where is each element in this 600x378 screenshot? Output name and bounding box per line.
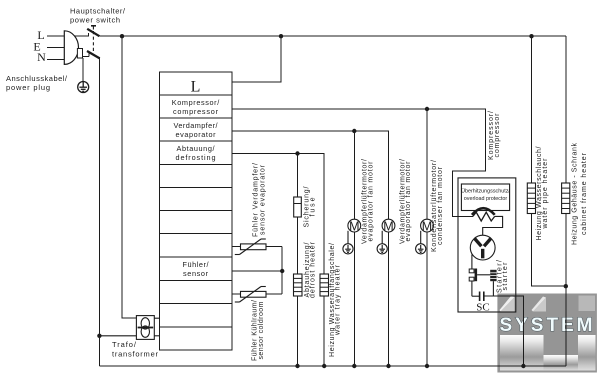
svg-text:water pipe heater: water pipe heater [542,158,549,230]
svg-text:SC: SC [476,302,489,314]
svg-text:Verdampfer/: Verdampfer/ [174,121,219,130]
svg-text:N: N [37,50,46,64]
svg-text:cabinet frame heater: cabinet frame heater [581,152,588,235]
svg-text:sensor evaporator: sensor evaporator [260,164,267,235]
svg-text:water tray heater: water tray heater [334,264,341,336]
svg-text:power plug: power plug [6,83,50,92]
svg-text:evaporator fan motor: evaporator fan motor [405,161,412,242]
svg-text:sensor coldroom: sensor coldroom [258,301,265,359]
svg-text:defrost heater: defrost heater [309,241,316,298]
svg-text:compressor: compressor [173,107,219,116]
svg-text:M: M [383,219,393,233]
svg-text:M: M [349,219,359,233]
svg-text:evaporator fan motor: evaporator fan motor [368,161,375,242]
svg-text:Heizung Gehäuse - Schrank: Heizung Gehäuse - Schrank [572,143,579,246]
svg-text:Überhitzungsschutz/: Überhitzungsschutz/ [461,188,510,195]
svg-text:sensor: sensor [183,269,209,278]
svg-text:L: L [191,79,201,96]
svg-text:power switch: power switch [70,16,120,25]
svg-text:transformer: transformer [112,350,159,359]
svg-text:evaporator: evaporator [176,130,217,139]
svg-text:compressor: compressor [494,113,501,158]
svg-text:overload protector: overload protector [464,196,508,202]
svg-text:Abtauung/: Abtauung/ [177,144,216,153]
svg-text:Fühler Verdampfer/: Fühler Verdampfer/ [253,163,260,237]
svg-text:Kompressor/: Kompressor/ [172,98,220,107]
svg-text:defrosting: defrosting [176,153,216,162]
svg-text:condenser fan motor: condenser fan motor [437,166,444,245]
svg-text:Anschlusskabel/: Anschlusskabel/ [6,74,68,83]
svg-text:Fühler/: Fühler/ [183,260,210,269]
svg-text:SYSTEM: SYSTEM [500,315,595,336]
svg-text:Hauptschalter/: Hauptschalter/ [70,7,126,16]
svg-text:Trafo/: Trafo/ [112,340,137,349]
